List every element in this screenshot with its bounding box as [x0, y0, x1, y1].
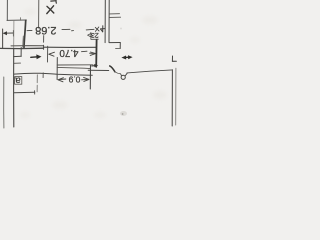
dim 0.9 left arrowhead — [58, 78, 66, 82]
wall line L3 right of post — [88, 69, 109, 71]
wall: thick vertical x=26 — [24, 20, 26, 47]
dash before 2.68 — [27, 29, 32, 31]
tick on lower wall at x=43 — [42, 73, 44, 78]
top right wall vertical 2 — [108, 0, 110, 42]
rotated 4 glyph — [101, 26, 105, 32]
stub horizontal y=63 — [14, 62, 21, 64]
double arrow (both heads) — [125, 56, 130, 58]
top right wall vertical 1 — [104, 0, 106, 43]
small right arrow at junction — [92, 65, 96, 67]
solid right arrow mid-left — [31, 56, 38, 59]
corner wall right of top verticals — [109, 42, 120, 44]
dashed vertical top x=38.7 — [38, 0, 40, 28]
dim 0.9 right arrowhead — [82, 77, 89, 81]
wall band L2a — [57, 64, 93, 66]
main horizontal wall H1 left part — [0, 47, 44, 49]
room right vertical (light) x=37 — [36, 75, 38, 83]
wall band L2b — [57, 67, 90, 68]
window mark = lower — [110, 16, 121, 18]
label box a — [15, 77, 22, 85]
long wall to right wall — [127, 70, 172, 73]
svg-text:a: a — [15, 75, 21, 86]
wall: left outer vertical upper — [2, 29, 4, 48]
tiny arrowhead left of 32 box — [88, 34, 91, 37]
dimension tick under 2.68 — [43, 36, 45, 43]
right wall vertical inner — [171, 70, 173, 126]
dim 4.70 left tick — [47, 46, 49, 62]
pillar rect below H1 — [20, 48, 22, 57]
main horizontal wall H1 right part — [44, 46, 97, 48]
right wall vertical outer (lighter) — [175, 68, 177, 125]
dim vertical V1 x=57.2 — [56, 58, 58, 80]
wall: top-left balcony vertical — [6, 0, 8, 21]
X mark — [47, 6, 54, 14]
L mark top right — [172, 56, 176, 61]
svg-text:4.70: 4.70 — [59, 47, 79, 58]
32 badge box — [91, 32, 98, 39]
lower-left outer vertical — [3, 77, 5, 128]
dashes after 2.68 — [62, 28, 70, 30]
rotated dimension texts — [15, 24, 99, 85]
long left wall vertical x=13.6 — [13, 49, 15, 127]
dim 4.70 right arrowhead — [90, 52, 95, 55]
small x mark — [95, 27, 99, 31]
dim 4.70 left arrowhead — [49, 52, 55, 56]
dimension arrow left (points left) — [4, 32, 13, 34]
paper background — [0, 0, 190, 130]
dim 4.70 trailing dash — [82, 50, 88, 53]
thick dark vertical x=96.3 — [95, 40, 97, 67]
wall jog tick at x=43.5 — [43, 45, 45, 49]
smudge bottom middle — [120, 111, 127, 116]
svg-text:2.68: 2.68 — [35, 24, 56, 36]
vertical V2 x=90.4 — [89, 65, 91, 89]
door squiggle stroke — [110, 66, 115, 72]
door squiggle loop — [120, 74, 123, 76]
window mark = upper — [110, 13, 120, 15]
svg-text:23: 23 — [91, 31, 99, 38]
wall: balcony top horizontal — [7, 19, 26, 21]
room bottom wall y=92.5 — [14, 91, 35, 93]
svg-text:0.9: 0.9 — [68, 75, 80, 85]
long lower wall L1 — [14, 73, 92, 75]
room bottom end tick — [34, 91, 36, 94]
dash left of x mark — [86, 28, 94, 31]
